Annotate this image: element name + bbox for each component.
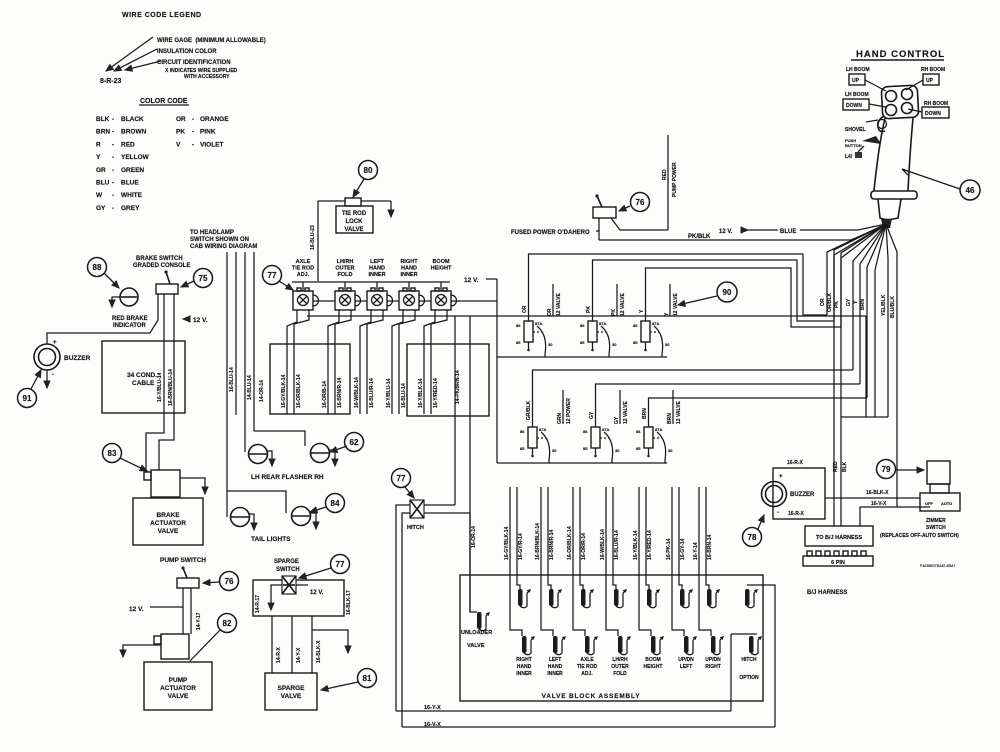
svg-text:BLU/BLK: BLU/BLK <box>890 296 896 318</box>
svg-text:VALVE: VALVE <box>281 693 302 700</box>
svg-text:88: 88 <box>93 263 102 272</box>
svg-text:CIRCUIT IDENTIFICATION: CIRCUIT IDENTIFICATION <box>157 60 231 66</box>
svg-text:ZIMMER: ZIMMER <box>926 518 946 524</box>
svg-text:16-Y/BLU-14: 16-Y/BLU-14 <box>157 372 163 402</box>
svg-text:34 COND.: 34 COND. <box>127 372 157 379</box>
svg-text:LOCK: LOCK <box>346 219 364 225</box>
svg-text:GRN: GRN <box>557 413 563 425</box>
svg-text:BRN: BRN <box>860 299 866 310</box>
svg-text:85: 85 <box>583 446 588 451</box>
svg-text:BUTTON: BUTTON <box>845 143 862 148</box>
svg-text:BLK: BLK <box>96 116 110 123</box>
svg-text:16-BLU-23: 16-BLU-23 <box>310 225 316 250</box>
svg-text:HAND: HAND <box>548 664 563 670</box>
svg-text:-: - <box>112 154 114 161</box>
svg-text:76: 76 <box>636 198 645 207</box>
svg-text:UP/DN: UP/DN <box>705 657 721 663</box>
svg-text:12 VALVE: 12 VALVE <box>623 400 629 424</box>
svg-text:GY: GY <box>96 205 106 212</box>
svg-text:RED: RED <box>833 461 839 472</box>
svg-text:16-W/BLK-14: 16-W/BLK-14 <box>354 377 360 408</box>
svg-text:TIE ROD: TIE ROD <box>292 266 314 272</box>
svg-text:46: 46 <box>966 186 975 195</box>
svg-text:RED BRAKE: RED BRAKE <box>112 316 148 322</box>
svg-text:YEL/BLK: YEL/BLK <box>881 294 887 316</box>
svg-text:FOLD: FOLD <box>338 272 353 278</box>
svg-text:16-BLU/R-14: 16-BLU/R-14 <box>369 378 375 408</box>
svg-text:GREEN: GREEN <box>121 167 144 174</box>
svg-text:ADJ.: ADJ. <box>297 272 310 278</box>
svg-text:PUMP SWITCH: PUMP SWITCH <box>160 557 206 564</box>
svg-text:77: 77 <box>336 560 345 569</box>
svg-text:87A: 87A <box>602 427 609 432</box>
svg-text:BRN: BRN <box>642 408 648 419</box>
svg-text:-: - <box>777 510 779 516</box>
svg-text:75: 75 <box>199 274 208 283</box>
svg-text:-: - <box>112 180 114 187</box>
svg-text:BLACK: BLACK <box>121 116 144 123</box>
svg-text:87A: 87A <box>539 427 546 432</box>
svg-text:-: - <box>192 141 194 148</box>
svg-text:OUTER: OUTER <box>335 266 354 272</box>
svg-text:VALVE BLOCK ASSEMBLY: VALVE BLOCK ASSEMBLY <box>542 693 641 700</box>
svg-text:30: 30 <box>548 342 553 347</box>
svg-text:LH BOOM: LH BOOM <box>845 92 869 98</box>
svg-text:OR: OR <box>522 305 528 313</box>
svg-text:16-BRN/BLK-14: 16-BRN/BLK-14 <box>535 523 541 560</box>
svg-text:86: 86 <box>633 323 638 328</box>
svg-text:-: - <box>112 116 114 123</box>
svg-text:RED: RED <box>121 141 135 148</box>
svg-text:14-Y-17: 14-Y-17 <box>196 612 202 630</box>
svg-text:ADJ.: ADJ. <box>581 671 593 677</box>
svg-text:LEFT: LEFT <box>549 657 562 663</box>
svg-text:RED: RED <box>662 169 668 180</box>
svg-text:16-GY/BLK-14: 16-GY/BLK-14 <box>504 526 510 560</box>
svg-text:DOWN: DOWN <box>846 103 862 109</box>
svg-text:W: W <box>96 192 103 199</box>
svg-text:WITH ACCESSORY: WITH ACCESSORY <box>184 74 230 80</box>
svg-text:(REPLACES OFF-AUTO SWITCH): (REPLACES OFF-AUTO SWITCH) <box>880 533 959 539</box>
svg-text:DOWN: DOWN <box>925 111 941 117</box>
svg-text:OPTION: OPTION <box>739 675 759 681</box>
svg-text:81: 81 <box>363 674 372 683</box>
svg-text:FOLD: FOLD <box>613 671 627 677</box>
svg-text:PK: PK <box>611 309 617 316</box>
svg-text:86: 86 <box>520 429 525 434</box>
svg-text:-: - <box>112 167 114 174</box>
svg-text:30: 30 <box>665 342 670 347</box>
svg-text:GY: GY <box>589 411 595 419</box>
svg-text:16-BRN/R-14: 16-BRN/R-14 <box>549 529 555 560</box>
svg-text:CABLE: CABLE <box>132 380 155 387</box>
svg-text:SHOVEL: SHOVEL <box>845 127 866 133</box>
svg-text:TIE ROD: TIE ROD <box>577 664 598 670</box>
svg-text:83: 83 <box>108 449 117 458</box>
svg-text:PINK: PINK <box>200 129 216 136</box>
svg-text:16-Y/RED-14: 16-Y/RED-14 <box>647 530 653 560</box>
svg-text:SPARGE: SPARGE <box>278 685 306 692</box>
svg-text:ACTUATOR: ACTUATOR <box>160 685 196 692</box>
svg-text:GRADED CONSOLE: GRADED CONSOLE <box>133 263 190 269</box>
svg-text:-: - <box>112 141 114 148</box>
svg-text:TO B/J HARNESS: TO B/J HARNESS <box>816 535 862 541</box>
svg-text:INNER: INNER <box>516 671 532 677</box>
svg-text:80: 80 <box>364 166 373 175</box>
svg-text:INDICATOR: INDICATOR <box>113 323 146 329</box>
svg-text:GREY: GREY <box>121 205 140 212</box>
svg-text:YELLOW: YELLOW <box>121 154 150 161</box>
svg-text:12 VALVE: 12 VALVE <box>676 400 682 424</box>
svg-text:76: 76 <box>225 577 234 586</box>
svg-text:ACTUATOR: ACTUATOR <box>150 520 186 527</box>
svg-text:16-OR-14: 16-OR-14 <box>471 526 477 548</box>
svg-text:16-BRN/BLU-14: 16-BRN/BLU-14 <box>168 369 174 406</box>
svg-text:LH BOOM: LH BOOM <box>846 67 870 73</box>
svg-text:UP: UP <box>852 78 860 84</box>
svg-text:14-PK/BRN-14: 14-PK/BRN-14 <box>455 370 461 404</box>
svg-text:16-OR/R-14: 16-OR/R-14 <box>581 533 587 560</box>
svg-text:85: 85 <box>516 340 521 345</box>
svg-text:16-Y/RED-14: 16-Y/RED-14 <box>433 378 439 408</box>
svg-text:85: 85 <box>633 340 638 345</box>
svg-text:14-Y-X: 14-Y-X <box>296 647 302 663</box>
svg-text:16-Y/BLU-14: 16-Y/BLU-14 <box>386 378 392 408</box>
svg-text:-: - <box>112 205 114 212</box>
svg-text:Y: Y <box>96 154 101 161</box>
svg-text:HEIGHT: HEIGHT <box>644 664 663 670</box>
svg-text:16-GY/R-14: 16-GY/R-14 <box>518 533 524 560</box>
svg-text:16-GY-14: 16-GY-14 <box>680 538 686 560</box>
svg-text:PUMP POWER: PUMP POWER <box>672 162 678 197</box>
svg-text:LH REAR FLASHER RH: LH REAR FLASHER RH <box>251 474 324 481</box>
svg-text:OR/BLK: OR/BLK <box>827 292 833 312</box>
svg-text:30: 30 <box>612 342 617 347</box>
svg-text:TIE ROD: TIE ROD <box>342 211 367 217</box>
svg-text:77: 77 <box>397 474 406 483</box>
svg-text:16-BLK-X: 16-BLK-X <box>866 490 889 496</box>
svg-text:79: 79 <box>882 465 891 474</box>
svg-text:LEFT: LEFT <box>370 259 384 265</box>
svg-text:V: V <box>176 141 181 148</box>
svg-text:16-BLK-X: 16-BLK-X <box>316 640 322 663</box>
svg-text:COLOR CODE: COLOR CODE <box>140 98 188 105</box>
svg-text:R: R <box>96 141 101 148</box>
svg-text:-: - <box>192 129 194 136</box>
svg-text:OR: OR <box>820 298 826 306</box>
svg-text:AUTO: AUTO <box>941 501 952 506</box>
svg-text:BRAKE SWITCH: BRAKE SWITCH <box>136 256 183 262</box>
svg-text:16-BLK-17: 16-BLK-17 <box>346 590 352 615</box>
svg-text:TO HEADLAMP: TO HEADLAMP <box>190 230 234 236</box>
svg-text:GY: GY <box>614 416 620 424</box>
svg-text:VALVE: VALVE <box>168 693 189 700</box>
svg-text:RH BOOM: RH BOOM <box>924 101 948 107</box>
svg-text:16-BRN/R-14: 16-BRN/R-14 <box>337 377 343 408</box>
svg-text:HEIGHT: HEIGHT <box>431 266 452 272</box>
svg-text:LEFT: LEFT <box>680 664 693 670</box>
svg-text:GR/BLK: GR/BLK <box>526 400 532 420</box>
svg-text:GR: GR <box>96 167 106 174</box>
svg-text:OFF: OFF <box>925 501 934 506</box>
svg-text:12 POWER: 12 POWER <box>566 398 572 424</box>
svg-text:INNER: INNER <box>547 671 563 677</box>
svg-text:16-Y-14: 16-Y-14 <box>693 542 699 560</box>
svg-text:86: 86 <box>580 323 585 328</box>
svg-text:14-R-X: 14-R-X <box>276 646 282 663</box>
svg-text:P40388G7BA45 45MJ: P40388G7BA45 45MJ <box>920 564 955 568</box>
svg-text:UP: UP <box>926 78 934 84</box>
svg-text:OR: OR <box>547 308 553 316</box>
svg-text:HAND: HAND <box>401 266 417 272</box>
svg-text:-: - <box>112 192 114 199</box>
svg-text:AXLE: AXLE <box>296 259 311 265</box>
svg-text:HITCH: HITCH <box>407 525 424 531</box>
svg-text:12 V.: 12 V. <box>193 317 208 324</box>
svg-text:CAB WIRING DIAGRAM: CAB WIRING DIAGRAM <box>190 244 257 250</box>
svg-text:VALVE: VALVE <box>344 227 363 233</box>
svg-text:OR: OR <box>176 116 186 123</box>
svg-text:+: + <box>779 474 783 480</box>
svg-text:PUMP: PUMP <box>169 677 188 684</box>
svg-text:30: 30 <box>615 448 620 453</box>
svg-text:16-BLU-14: 16-BLU-14 <box>229 367 235 392</box>
svg-text:16-Y/BLK-14: 16-Y/BLK-14 <box>418 378 424 408</box>
svg-text:LH/RH: LH/RH <box>612 657 628 663</box>
svg-text:BRN: BRN <box>96 129 110 136</box>
svg-text:85: 85 <box>520 446 525 451</box>
svg-text:BLUE: BLUE <box>780 229 796 235</box>
svg-text:GY: GY <box>846 298 852 306</box>
svg-text:30: 30 <box>668 448 673 453</box>
svg-text:RH BOOM: RH BOOM <box>921 67 945 73</box>
svg-text:16-BRN-14: 16-BRN-14 <box>707 534 713 560</box>
svg-text:16-Y-X: 16-Y-X <box>424 705 441 711</box>
svg-text:RIGHT: RIGHT <box>705 664 721 670</box>
svg-text:-: - <box>192 116 194 123</box>
svg-text:UNLOADER: UNLOADER <box>461 630 492 636</box>
svg-text:8-R-23: 8-R-23 <box>100 78 122 85</box>
svg-text:HAND CONTROL: HAND CONTROL <box>856 49 945 60</box>
svg-text:WHITE: WHITE <box>121 192 143 199</box>
svg-text:16-BLU-14: 16-BLU-14 <box>401 383 407 408</box>
svg-text:PK/BLK: PK/BLK <box>688 234 711 240</box>
svg-text:6 PIN: 6 PIN <box>831 560 845 566</box>
svg-text:16-Y/BLK-14: 16-Y/BLK-14 <box>633 530 639 560</box>
svg-text:86: 86 <box>583 429 588 434</box>
svg-text:RIGHT: RIGHT <box>400 259 418 265</box>
svg-text:FUSED POWER O’DAHERO: FUSED POWER O’DAHERO <box>511 230 590 236</box>
svg-text:30: 30 <box>552 448 557 453</box>
svg-text:86: 86 <box>516 323 521 328</box>
svg-text:62: 62 <box>350 438 359 447</box>
svg-text:14-BLU-14: 14-BLU-14 <box>247 375 253 400</box>
svg-text:BLU: BLU <box>96 180 110 187</box>
svg-text:OUTER: OUTER <box>611 664 629 670</box>
svg-text:WIRE CODE LEGEND: WIRE CODE LEGEND <box>122 12 202 19</box>
svg-text:ORANGE: ORANGE <box>200 116 229 123</box>
svg-text:INNER: INNER <box>368 272 385 278</box>
svg-text:BROWN: BROWN <box>121 129 147 136</box>
svg-text:85: 85 <box>580 340 585 345</box>
svg-text:14-R-17: 14-R-17 <box>255 595 261 613</box>
svg-text:16-OR/BLK-14: 16-OR/BLK-14 <box>567 526 573 560</box>
svg-text:LH/RH: LH/RH <box>337 259 354 265</box>
svg-text:87A: 87A <box>599 321 606 326</box>
svg-text:77: 77 <box>268 271 277 280</box>
svg-text:78: 78 <box>748 533 757 542</box>
svg-text:12 V.: 12 V. <box>464 277 479 284</box>
svg-text:BRN: BRN <box>667 413 673 424</box>
svg-text:+: + <box>53 340 57 346</box>
svg-text:-: - <box>112 129 114 136</box>
svg-text:16-OR/B-14: 16-OR/B-14 <box>322 381 328 408</box>
svg-text:86: 86 <box>636 429 641 434</box>
svg-text:PK: PK <box>586 306 592 313</box>
svg-text:16-BLU/R-14: 16-BLU/R-14 <box>614 530 620 560</box>
svg-text:16-R-X: 16-R-X <box>788 511 805 517</box>
svg-text:SPARGE: SPARGE <box>274 559 299 565</box>
svg-text:AXLE: AXLE <box>580 657 594 663</box>
svg-text:12 V.: 12 V. <box>129 606 144 613</box>
svg-text:12 V.: 12 V. <box>310 590 324 596</box>
svg-text:BOOM: BOOM <box>645 657 661 663</box>
svg-text:VIOLET: VIOLET <box>200 141 224 148</box>
svg-text:L4/: L4/ <box>845 154 853 160</box>
svg-text:SWITCH SHOWN ON: SWITCH SHOWN ON <box>190 237 249 243</box>
svg-text:84: 84 <box>331 499 340 508</box>
svg-text:87A: 87A <box>535 321 542 326</box>
svg-text:HAND: HAND <box>369 266 385 272</box>
svg-text:INSULATION COLOR: INSULATION COLOR <box>157 49 217 55</box>
svg-text:SWITCH: SWITCH <box>926 525 946 531</box>
svg-text:PK: PK <box>176 129 185 136</box>
svg-text:BRAKE: BRAKE <box>156 512 180 519</box>
svg-text:HITCH: HITCH <box>741 657 757 663</box>
svg-text:82: 82 <box>223 619 232 628</box>
svg-text:INNER: INNER <box>400 272 417 278</box>
svg-text:HAND: HAND <box>517 664 532 670</box>
svg-text:16-R-X: 16-R-X <box>787 460 804 466</box>
svg-text:VALVE: VALVE <box>158 528 179 535</box>
svg-text:WIRE GAGE (MINIMUM ALLOWABLE): WIRE GAGE (MINIMUM ALLOWABLE) <box>157 38 266 44</box>
svg-text:12 VALVE: 12 VALVE <box>620 292 626 316</box>
svg-text:PK: PK <box>834 301 840 308</box>
svg-text:BUZZER: BUZZER <box>790 492 815 498</box>
svg-text:TAIL LIGHTS: TAIL LIGHTS <box>251 536 291 543</box>
svg-text:BLK: BLK <box>842 461 848 472</box>
svg-text:12 VALVE: 12 VALVE <box>556 292 562 316</box>
svg-text:16-OR/BLK-14: 16-OR/BLK-14 <box>296 374 302 408</box>
svg-text:90: 90 <box>723 288 732 297</box>
svg-text:12 V.: 12 V. <box>719 229 733 235</box>
svg-text:B/J HARNESS: B/J HARNESS <box>807 590 847 596</box>
svg-text:BUZZER: BUZZER <box>64 355 91 362</box>
svg-text:BOOM: BOOM <box>432 259 450 265</box>
svg-text:VALVE: VALVE <box>467 643 485 649</box>
svg-text:16-W/BLK-14: 16-W/BLK-14 <box>600 529 606 560</box>
svg-text:87A: 87A <box>655 427 662 432</box>
svg-text:87A: 87A <box>652 321 659 326</box>
svg-text:SWITCH: SWITCH <box>276 567 300 573</box>
svg-text:12 VALVE: 12 VALVE <box>673 292 679 316</box>
svg-text:16-GY/BLK-14: 16-GY/BLK-14 <box>281 374 287 408</box>
svg-text:-: - <box>52 372 54 378</box>
svg-text:RIGHT: RIGHT <box>516 657 532 663</box>
svg-text:UP/DN: UP/DN <box>678 657 694 663</box>
svg-text:91: 91 <box>23 394 32 403</box>
svg-text:14-OR-14: 14-OR-14 <box>259 380 265 402</box>
svg-text:16-V-X: 16-V-X <box>871 501 887 507</box>
svg-text:85: 85 <box>636 446 641 451</box>
svg-text:16-PK-14: 16-PK-14 <box>666 538 672 560</box>
svg-text:BLUE: BLUE <box>121 180 139 187</box>
